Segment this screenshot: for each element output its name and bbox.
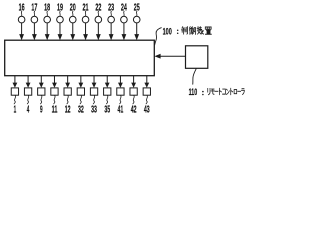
wire arrow out of box to 43 xyxy=(144,76,149,88)
svg-text:11: 11 xyxy=(52,104,58,115)
leader squiggle for label 110 xyxy=(193,69,197,85)
sensor circle 25 xyxy=(133,16,140,23)
sensor circle 24 xyxy=(121,16,128,23)
kanji 置 xyxy=(205,27,211,34)
actuator square 12 xyxy=(64,88,71,95)
leader squiggle 1 xyxy=(14,95,16,104)
leader squiggle 19 xyxy=(59,11,62,16)
leader squiggle 11 xyxy=(54,95,56,104)
sensor circle 22 xyxy=(95,16,102,23)
katakana ri xyxy=(208,88,210,94)
arrow remote to control device xyxy=(154,54,185,59)
actuator square 43 xyxy=(143,88,150,95)
leader squiggle 42 xyxy=(133,95,135,104)
remote controller box 110 xyxy=(186,46,208,69)
leader squiggle 23 xyxy=(110,11,113,16)
sensor circle 19 xyxy=(57,16,64,23)
svg-text:110: 110 xyxy=(189,87,198,98)
actuator square 1 xyxy=(11,88,18,95)
label colon xyxy=(202,91,204,96)
wire arrow into box from 23 xyxy=(109,23,114,40)
katakana to xyxy=(219,88,221,94)
kanji 装 xyxy=(197,27,203,34)
katakana mo xyxy=(211,89,214,94)
leader squiggle 35 xyxy=(106,95,108,104)
katakana n xyxy=(226,89,229,94)
svg-text:9: 9 xyxy=(40,104,43,115)
katakana to xyxy=(231,88,233,94)
svg-text:43: 43 xyxy=(144,104,150,115)
katakana long dash xyxy=(215,90,218,92)
actuator square 35 xyxy=(104,88,111,95)
leader squiggle 9 xyxy=(40,95,42,104)
actuator square 32 xyxy=(77,88,84,95)
leader squiggle for label 100 xyxy=(155,28,162,46)
actuator square 9 xyxy=(38,88,45,95)
wire arrow out of box to 1 xyxy=(13,76,18,88)
kanji 御 xyxy=(189,27,195,35)
leader squiggle 12 xyxy=(67,95,69,104)
svg-text:100: 100 xyxy=(163,26,172,37)
actuator square 41 xyxy=(117,88,124,95)
leader squiggle 43 xyxy=(146,95,148,104)
actuator square 42 xyxy=(130,88,137,95)
sensor circle 18 xyxy=(44,16,51,23)
control device box 100 xyxy=(5,40,155,75)
svg-text:32: 32 xyxy=(78,104,84,115)
leader squiggle 41 xyxy=(120,95,122,104)
leader squiggle 20 xyxy=(72,11,75,16)
wire arrow into box from 18 xyxy=(45,23,50,40)
wire arrow out of box to 32 xyxy=(78,76,83,88)
kanji 制 xyxy=(181,27,187,34)
leader squiggle 32 xyxy=(80,95,82,104)
svg-text:35: 35 xyxy=(104,104,110,115)
leader squiggle 24 xyxy=(123,11,126,16)
leader squiggle 21 xyxy=(84,11,87,16)
wire arrow into box from 21 xyxy=(83,23,88,40)
svg-text:33: 33 xyxy=(91,104,97,115)
wire arrow out of box to 9 xyxy=(39,76,44,88)
leader squiggle 25 xyxy=(135,11,138,16)
wire arrow out of box to 42 xyxy=(131,76,136,88)
wire arrow into box from 17 xyxy=(32,23,37,40)
actuator square 11 xyxy=(51,88,58,95)
katakana ra xyxy=(241,89,244,95)
wire arrow out of box to 33 xyxy=(92,76,97,88)
svg-text:1: 1 xyxy=(14,104,17,115)
katakana ro xyxy=(234,90,237,94)
sensor circle 20 xyxy=(69,16,76,23)
sensor circle 17 xyxy=(31,16,38,23)
katakana long dash xyxy=(238,90,241,92)
sensor circle 21 xyxy=(82,16,89,23)
wire arrow into box from 19 xyxy=(58,23,63,40)
wire arrow into box from 22 xyxy=(96,23,101,40)
wire arrow out of box to 12 xyxy=(65,76,70,88)
leader squiggle 4 xyxy=(27,95,29,104)
katakana ko xyxy=(223,89,226,94)
wire arrow into box from 20 xyxy=(70,23,75,40)
sensor circle 23 xyxy=(108,16,115,23)
wire arrow out of box to 41 xyxy=(118,76,123,88)
wire arrow into box from 25 xyxy=(134,23,139,40)
wire arrow out of box to 4 xyxy=(26,76,31,88)
svg-text:42: 42 xyxy=(131,104,137,115)
sensor circle 16 xyxy=(18,16,25,23)
svg-text:4: 4 xyxy=(27,104,30,115)
wire arrow out of box to 35 xyxy=(105,76,110,88)
label colon xyxy=(177,29,179,34)
actuator square 33 xyxy=(90,88,97,95)
wire arrow into box from 16 xyxy=(19,23,24,40)
actuator square 4 xyxy=(24,88,31,95)
leader squiggle 22 xyxy=(97,11,100,16)
leader squiggle 33 xyxy=(93,95,95,104)
svg-text:12: 12 xyxy=(65,104,71,115)
svg-text:41: 41 xyxy=(118,104,124,115)
wire arrow out of box to 11 xyxy=(52,76,57,88)
leader squiggle 17 xyxy=(33,11,36,16)
wire arrow into box from 24 xyxy=(122,23,127,40)
leader squiggle 16 xyxy=(20,11,23,16)
leader squiggle 18 xyxy=(46,11,49,16)
